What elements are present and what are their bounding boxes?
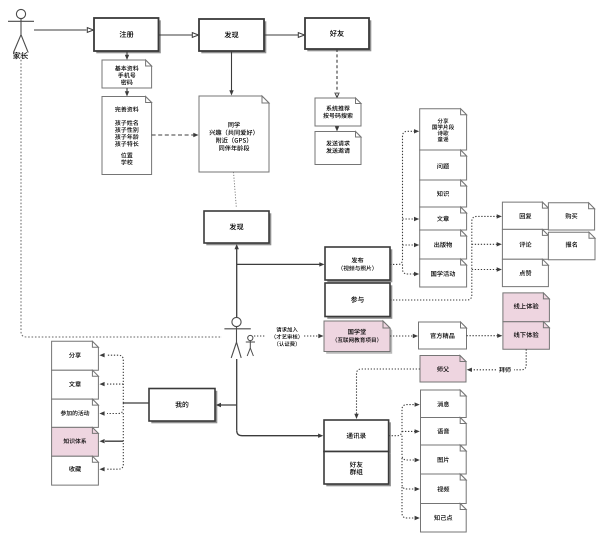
actor 家长 (parent) (8, 9, 34, 52)
document 评论 (502, 229, 548, 259)
solid wire 我的 to 知识体系 (105, 440, 123, 442)
box 发现 (top) (201, 21, 266, 53)
document 同学/兴趣/附近/年龄段 (199, 96, 269, 172)
box 发布 (327, 249, 392, 282)
wire 注册 to 基本资料 (126, 51, 128, 57)
document 视频 (421, 474, 467, 504)
wire 发现 to 同学 (231, 51, 233, 92)
label 请求加入（才艺审核）（认证费） (276, 327, 281, 332)
wire 基本资料 to 完善资料 (126, 88, 128, 93)
document 知识 (420, 180, 467, 207)
label 拜师 (499, 367, 505, 373)
document 分享 (mine) (52, 341, 99, 370)
document 分享/国学片段/诗歌/童谣 (420, 109, 467, 150)
document 完善资料 (child profile) (102, 97, 152, 175)
lifeline of 家长 (21, 53, 222, 337)
document 图片 (421, 445, 467, 474)
box 通讯录 (326, 422, 391, 454)
wire 系统推荐 to 发送请求 (336, 126, 338, 129)
dotted fan 参与 to 回复/评论/点赞 (390, 216, 497, 300)
document 参加的活动 (52, 399, 99, 427)
dotted wire 同学 to 发现2 (234, 172, 237, 207)
dotted wire 线下体验 to 师父 (拜师) (514, 349, 526, 370)
box 发现 (middle) (206, 213, 271, 245)
wire 发现 to 好友 (264, 34, 298, 36)
document 点赞 (502, 259, 548, 286)
document 购买 (548, 203, 594, 230)
box 注册 (96, 20, 161, 53)
document 师父 (pink) (420, 356, 466, 383)
document 文章 (420, 207, 467, 230)
document 语音 (421, 418, 467, 446)
document 官方精品 (419, 322, 467, 349)
document 知己点 (421, 504, 467, 533)
document 国学活动 (420, 259, 467, 287)
actor user (adult) (224, 317, 250, 358)
document 基本资料/手机号/密码 (102, 60, 152, 88)
box 参与 (327, 285, 392, 319)
dotted wire actor to 国学堂 (254, 335, 265, 337)
document 国学堂 (pink) (326, 323, 392, 354)
document 文章 (mine) (52, 370, 99, 399)
document 线上体验 (pink) (503, 293, 550, 322)
document 回复 (502, 202, 548, 229)
dotted fan 发布 to column1 (390, 131, 415, 264)
wire hub up into 发现2 (236, 248, 238, 318)
actor child (246, 335, 255, 356)
document 出版物 (420, 230, 467, 259)
document 知识体系 (pink) (52, 427, 99, 456)
dotted wire 官方精品 to 线下体验 (467, 335, 499, 337)
document 线下体验 (pink) (503, 322, 550, 350)
document 系统推荐/按号码搜索 (315, 98, 361, 126)
lifeline user down, branch to 我的 and 通讯录 (236, 359, 238, 430)
document 收藏 (52, 456, 99, 485)
document 问题 (420, 150, 467, 180)
box 好友群组 (326, 454, 391, 487)
document 报名 (548, 232, 595, 260)
dotted wire 国学堂 to 官方精品 (390, 335, 414, 337)
dashed wire 完善资料 to 同学 (152, 134, 194, 136)
dashed wire 好友 to 系统推荐 (336, 49, 338, 94)
wire 注册 to 发现 (159, 34, 193, 36)
fan 我的 to my column (123, 402, 149, 404)
wire 家长 to 注册 (34, 29, 87, 31)
document 消息 (421, 390, 467, 418)
dotted fan 通讯录 to message docs (389, 405, 415, 436)
wire hub to 发布 (237, 263, 320, 265)
document 发送请求/发送邀请 (315, 132, 361, 165)
box 我的 (151, 391, 217, 424)
dotted wire 师父 to 通讯录 (357, 369, 421, 415)
box 好友 (307, 20, 371, 51)
